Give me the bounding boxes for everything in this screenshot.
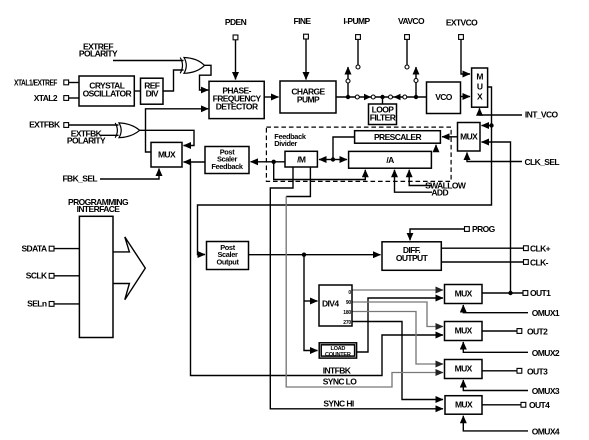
svg-text:MUX: MUX xyxy=(455,400,473,410)
svg-text:MUX: MUX xyxy=(455,364,473,374)
svg-text:XTAL2: XTAL2 xyxy=(34,93,58,103)
svg-text:CLK-: CLK- xyxy=(530,257,549,267)
svg-text:270: 270 xyxy=(343,320,351,326)
svg-text:SYNC HI: SYNC HI xyxy=(323,399,354,409)
svg-text:XTAL1/EXTREF: XTAL1/EXTREF xyxy=(14,78,57,88)
svg-text:Output: Output xyxy=(216,258,239,267)
svg-text:EXTVCO: EXTVCO xyxy=(446,18,478,28)
svg-text:Divider: Divider xyxy=(274,139,297,148)
svg-text:POLARITY: POLARITY xyxy=(79,49,118,59)
svg-text:0: 0 xyxy=(348,290,351,296)
svg-text:INTFBK: INTFBK xyxy=(323,366,352,376)
svg-text:OUTPUT: OUTPUT xyxy=(396,253,429,263)
svg-text:PDEN: PDEN xyxy=(225,17,247,27)
svg-text:COUNTER: COUNTER xyxy=(325,352,351,358)
svg-text:SELn: SELn xyxy=(27,299,47,309)
svg-text:/A: /A xyxy=(386,155,394,165)
svg-text:90: 90 xyxy=(346,300,352,306)
svg-text:OMUX2: OMUX2 xyxy=(532,348,560,358)
svg-text:/M: /M xyxy=(297,155,306,165)
svg-text:VAVCO: VAVCO xyxy=(398,16,425,26)
svg-text:MUX: MUX xyxy=(455,326,473,336)
svg-text:VCO: VCO xyxy=(435,92,453,102)
svg-text:OUT1: OUT1 xyxy=(530,288,551,298)
svg-text:CLK+: CLK+ xyxy=(530,244,551,254)
svg-text:DIV4: DIV4 xyxy=(322,299,339,309)
svg-text:U: U xyxy=(477,82,483,92)
svg-text:OMUX4: OMUX4 xyxy=(532,426,560,436)
svg-text:OUT4: OUT4 xyxy=(529,400,550,410)
svg-text:MUX: MUX xyxy=(158,150,176,160)
svg-text:OUT3: OUT3 xyxy=(527,366,548,376)
svg-text:FILTER: FILTER xyxy=(370,113,396,123)
svg-text:OUT2: OUT2 xyxy=(527,326,548,336)
svg-text:EXTFBK: EXTFBK xyxy=(29,120,61,130)
svg-text:SYNC LO: SYNC LO xyxy=(323,377,358,387)
svg-text:OMUX3: OMUX3 xyxy=(532,386,560,396)
svg-text:FBK_SEL: FBK_SEL xyxy=(62,174,97,184)
svg-text:INTERFACE: INTERFACE xyxy=(77,204,121,214)
svg-text:180: 180 xyxy=(343,310,351,316)
svg-text:PROG: PROG xyxy=(472,224,496,234)
svg-text:INT_VCO: INT_VCO xyxy=(525,110,559,120)
svg-text:OMUX1: OMUX1 xyxy=(532,308,560,318)
svg-text:ADD: ADD xyxy=(431,188,448,198)
svg-text:I-PUMP: I-PUMP xyxy=(343,16,370,26)
svg-text:M: M xyxy=(476,72,483,82)
svg-text:DIV: DIV xyxy=(146,89,159,99)
svg-text:SDATA: SDATA xyxy=(21,244,46,254)
svg-text:MUX: MUX xyxy=(460,132,478,142)
svg-text:MUX: MUX xyxy=(455,289,473,299)
svg-text:FINE: FINE xyxy=(294,16,312,26)
svg-text:SCLK: SCLK xyxy=(26,271,48,281)
svg-text:CLK_SEL: CLK_SEL xyxy=(525,157,560,167)
svg-text:OSCILLATOR: OSCILLATOR xyxy=(83,89,132,99)
svg-text:PUMP: PUMP xyxy=(297,95,320,105)
svg-text:POLARITY: POLARITY xyxy=(67,136,106,146)
svg-text:DETECTOR: DETECTOR xyxy=(216,102,258,112)
svg-text:Feedback: Feedback xyxy=(211,162,244,171)
svg-text:PRESCALER: PRESCALER xyxy=(374,132,421,142)
